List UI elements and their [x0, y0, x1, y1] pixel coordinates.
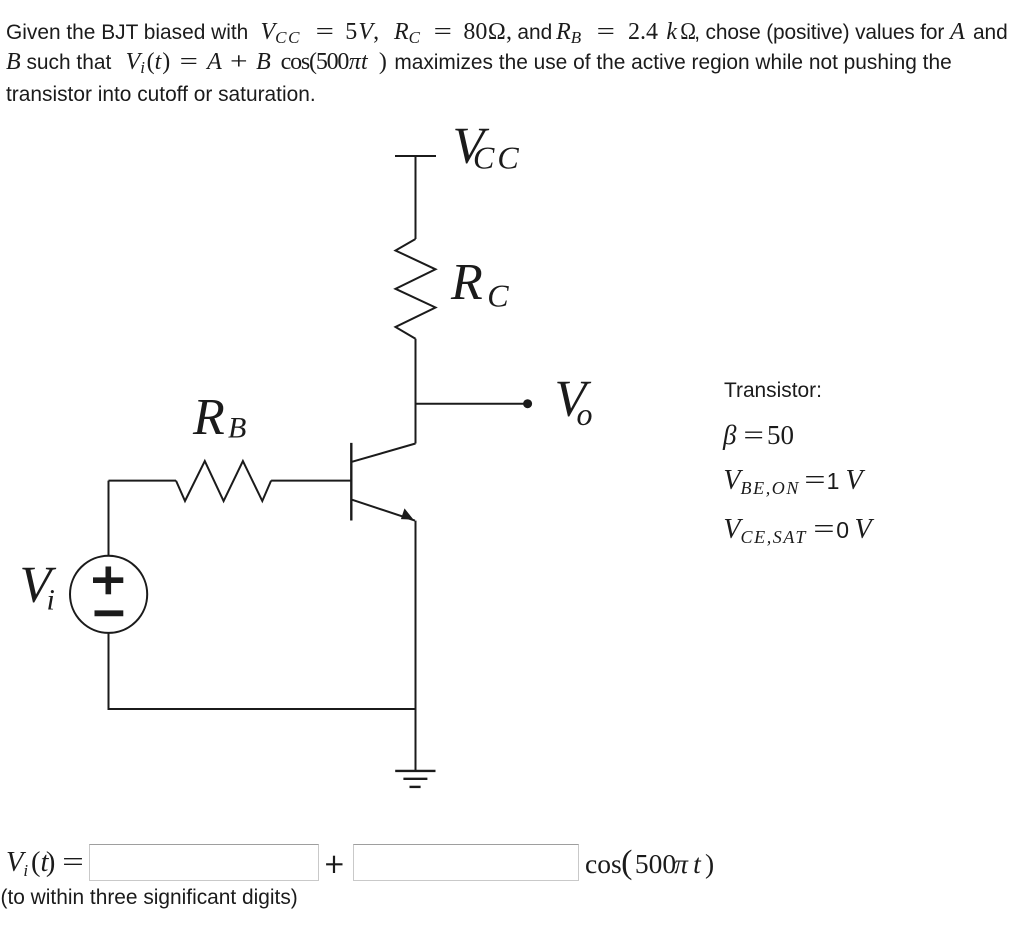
resistor RC: [396, 239, 436, 339]
svg-text:CC: CC: [473, 140, 522, 176]
problem statement paragraph: [6, 18, 1008, 78]
resistor RB: [176, 461, 271, 501]
wire RB to base: [271, 480, 351, 482]
transistor Q1 emitter lead: [352, 500, 415, 521]
svg-text:C: C: [487, 278, 509, 314]
wire source top: [108, 481, 110, 557]
wire source bottom: [108, 633, 110, 710]
source plus sign: [106, 567, 112, 595]
svg-text:R: R: [450, 254, 483, 311]
wire bottom return: [108, 708, 416, 710]
plus between answer boxes: [326, 863, 342, 865]
Vcc supply bar: [395, 155, 436, 157]
cos term: [585, 850, 714, 878]
transistor Q1 base bar: [350, 443, 352, 521]
note line: [1, 887, 298, 909]
input box 1: [89, 844, 319, 881]
svg-text:i: i: [47, 584, 55, 617]
node dot Vo: [523, 399, 532, 408]
wire base: [109, 480, 177, 482]
wire to ground: [415, 709, 417, 771]
ground symbol: [395, 770, 435, 772]
wire Vo node: [416, 403, 525, 405]
svg-text:o: o: [577, 396, 593, 432]
wire Rc to collector: [415, 339, 417, 444]
source minus sign: [95, 610, 124, 616]
svg-text:R: R: [192, 389, 225, 446]
answer row: [6, 848, 82, 885]
svg-text:B: B: [228, 412, 246, 445]
source Vi circle: [70, 556, 147, 633]
wire Vcc to Rc: [415, 156, 417, 239]
paragraph line 3: [6, 84, 316, 106]
transistor Q1 collector lead: [352, 444, 415, 462]
transistor parameters block: [724, 380, 822, 401]
wire emitter down: [415, 521, 417, 709]
transistor Q1 emitter arrow: [401, 508, 414, 519]
input box 2: [353, 844, 579, 881]
